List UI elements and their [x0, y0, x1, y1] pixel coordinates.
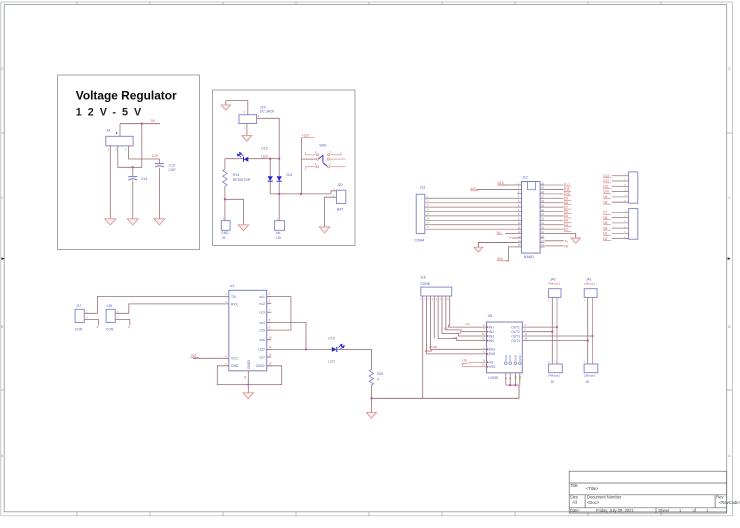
connector J20 BAT	[336, 190, 345, 203]
svg-text:D11: D11	[287, 173, 293, 177]
svg-text:<RevCode>: <RevCode>	[719, 500, 740, 505]
svg-text:A: A	[1, 453, 4, 458]
node nc4-LED	[305, 348, 307, 350]
svg-text:BAT: BAT	[337, 207, 343, 211]
wire J18 pin1 to U1 RXX	[115, 304, 229, 313]
connector J5	[549, 364, 563, 373]
svg-text:D12: D12	[603, 179, 609, 183]
svg-text:3v3: 3v3	[191, 354, 196, 358]
svg-text:D3: D3	[603, 232, 607, 236]
node U1 gnd	[247, 383, 249, 385]
svg-text:C14: C14	[141, 177, 147, 181]
net D10 header1	[612, 191, 629, 193]
wire LED pin to D18	[267, 348, 332, 350]
LED D18 arrows	[338, 344, 344, 349]
wire bat pin2 to ground	[325, 197, 337, 227]
svg-text:EN1: EN1	[489, 348, 495, 352]
ground (jack pin1)	[242, 136, 252, 142]
wire jack top	[226, 101, 248, 115]
svg-text:D2: D2	[564, 227, 568, 231]
svg-text:RMotor1: RMotor1	[548, 374, 560, 378]
net label 3v3 wire	[477, 188, 518, 190]
wire jack pin1 to ground	[246, 124, 248, 136]
svg-text:RMotor1: RMotor1	[548, 282, 560, 286]
svg-text:VCC: VCC	[231, 357, 239, 361]
connector J6	[584, 364, 598, 373]
net D3 header2	[612, 232, 629, 234]
resistor R20	[369, 370, 373, 386]
net D7	[545, 206, 564, 208]
svg-text:D4: D4	[564, 219, 568, 223]
svg-text:EN2B: EN2B	[425, 349, 432, 353]
border zone ticks top/bottom	[77, 2, 661, 516]
svg-text:D7: D7	[564, 205, 568, 209]
svg-text:nc7: nc7	[259, 355, 264, 359]
net D7 header2	[612, 211, 629, 213]
wire GND loop U1	[217, 366, 281, 385]
wire 5V top	[120, 123, 160, 125]
node R13 gnd tee	[224, 198, 226, 200]
wire battery net	[270, 193, 331, 195]
svg-text:in1: in1	[466, 322, 470, 326]
wire EN1	[430, 296, 486, 349]
svg-text:R13: R13	[233, 173, 239, 177]
wire 12V pin3	[128, 150, 159, 164]
svg-text:in4: in4	[454, 336, 458, 340]
svg-text:D8: D8	[603, 200, 607, 204]
svg-text:B: B	[728, 324, 731, 329]
svg-text:NANO: NANO	[524, 255, 534, 259]
SW1 levers	[319, 155, 327, 166]
svg-text:J17: J17	[76, 304, 82, 308]
NANO left pin stubs	[517, 185, 522, 247]
svg-text:Rx: Rx	[564, 245, 568, 249]
net D4	[545, 219, 564, 221]
svg-text:J9: J9	[222, 236, 226, 240]
wire JA1 pins down	[587, 297, 589, 364]
wire to ground arrow	[225, 199, 244, 225]
wire JA0 pins down	[551, 297, 553, 364]
capacitor C14	[128, 176, 137, 178]
wire LED row	[225, 158, 244, 160]
svg-text:J5: J5	[551, 380, 555, 384]
svg-text:D3: D3	[564, 223, 568, 227]
wires COM4 to NANO	[425, 196, 517, 229]
SW1 pole stubs left	[306, 154, 316, 156]
svg-text:Friday, July 09, 2021: Friday, July 09, 2021	[596, 508, 634, 513]
net D4 header2	[612, 227, 629, 229]
svg-text:nc3: nc3	[259, 311, 264, 315]
U1 pin14 stub	[247, 371, 249, 385]
wire gnd bus long	[371, 385, 519, 398]
net D5 header2	[612, 222, 629, 224]
border zone letters	[1, 66, 731, 458]
svg-text:OUT1: OUT1	[511, 325, 520, 329]
svg-text:in3: in3	[458, 331, 462, 335]
wire NANO left gnd	[478, 242, 517, 247]
net D3	[545, 224, 564, 226]
svg-text:Sheet: Sheet	[658, 508, 670, 513]
svg-text:SW1: SW1	[319, 144, 327, 148]
svg-text:nc4: nc4	[259, 321, 264, 325]
node C14 tap	[132, 166, 134, 168]
DC jack J19	[239, 115, 257, 124]
svg-text:D11: D11	[603, 184, 609, 188]
wire CON8 pin1 gnd	[422, 296, 424, 398]
net label 5V wire	[505, 233, 517, 235]
svg-text:A3: A3	[572, 500, 578, 505]
svg-text:C: C	[1, 195, 4, 200]
svg-text:5V: 5V	[151, 119, 156, 123]
svg-text:D12: D12	[564, 183, 570, 187]
wire Rx	[545, 245, 564, 247]
svg-text:LED: LED	[261, 154, 268, 158]
svg-text:GND: GND	[513, 355, 517, 361]
wire J17 pin2 nc	[84, 319, 98, 325]
svg-text:nc5: nc5	[259, 328, 264, 332]
svg-text:B: B	[1, 324, 4, 329]
wire C13 to ground	[158, 168, 160, 219]
wire D18 to R20	[337, 349, 372, 369]
net D8 header1	[612, 201, 629, 203]
net label VIN wire	[505, 247, 517, 261]
ground (NANO left)	[474, 247, 483, 252]
wire NANO gnd	[545, 234, 576, 238]
svg-text:J4: J4	[107, 129, 111, 133]
pin 2	[117, 146, 119, 150]
svg-text:VIN: VIN	[497, 257, 503, 261]
net label D13 wire	[498, 184, 517, 186]
wire IN1	[449, 296, 487, 327]
pin header J11	[629, 209, 638, 240]
svg-text:C13: C13	[169, 163, 175, 167]
resistor R13	[224, 159, 226, 169]
svg-text:LMotor1: LMotor1	[584, 374, 596, 378]
small wire rst	[512, 237, 517, 239]
node LED-D11a	[269, 158, 271, 160]
wire input to J4	[119, 124, 121, 137]
svg-text:D10: D10	[564, 192, 570, 196]
ground (R20)	[366, 413, 376, 419]
svg-text:J15: J15	[276, 236, 281, 240]
svg-text:Tx: Tx	[564, 239, 568, 243]
wire Vin J15	[278, 194, 280, 221]
svg-text:12v: 12v	[462, 359, 468, 363]
svg-text:RESISTOR: RESISTOR	[233, 178, 251, 182]
wire R13 bottom	[224, 186, 226, 220]
pin 3	[127, 146, 129, 150]
svg-text:TXI: TXI	[231, 295, 236, 299]
svg-text:OUT4: OUT4	[511, 339, 520, 343]
svg-text:D9: D9	[564, 196, 568, 200]
svg-text:nc1: nc1	[259, 295, 264, 299]
regulator J4	[106, 136, 133, 146]
node SW1-bat	[300, 193, 302, 195]
svg-text:D5: D5	[564, 214, 568, 218]
wire OUT4	[522, 340, 587, 342]
svg-text:-: -	[559, 361, 560, 364]
wire J17 pin1 to U1 TXI	[84, 296, 229, 313]
wire +12v to SW1 and battery	[301, 138, 303, 194]
wire IN4	[438, 296, 486, 341]
svg-text:D5: D5	[603, 221, 607, 225]
svg-text:3v3: 3v3	[470, 187, 475, 191]
svg-text:D9: D9	[603, 195, 607, 199]
svg-text:D13: D13	[498, 181, 504, 185]
net D6 header2	[612, 217, 629, 219]
svg-text:GND: GND	[221, 231, 229, 235]
svg-text:R20: R20	[377, 372, 383, 376]
svg-text:D11: D11	[564, 188, 570, 192]
net D5	[545, 215, 564, 217]
svg-text:GND3: GND3	[247, 360, 251, 369]
svg-text:U5: U5	[488, 314, 493, 318]
svg-text:rst: rst	[509, 235, 512, 239]
svg-text:12V: 12V	[152, 154, 159, 158]
node D11b-bat	[278, 193, 280, 195]
svg-text:Date:: Date:	[570, 508, 580, 513]
net D2	[545, 228, 564, 230]
wire pin2 net	[118, 124, 142, 168]
wire C14	[132, 167, 134, 176]
net D8	[545, 202, 564, 204]
net D10	[545, 193, 564, 195]
svg-text:CON: CON	[106, 328, 114, 332]
svg-text:D18: D18	[328, 336, 334, 340]
svg-text:L293D: L293D	[488, 376, 499, 380]
svg-text:LMotor1: LMotor1	[584, 282, 596, 286]
SW1 pole stubs right	[330, 154, 341, 156]
svg-text:GND: GND	[518, 355, 522, 361]
svg-text:D16: D16	[261, 147, 267, 151]
wire IN2	[446, 296, 487, 332]
svg-text:Voltage Regulator: Voltage Regulator	[76, 88, 177, 102]
NANO right pin stubs	[540, 185, 545, 247]
svg-text:U1: U1	[230, 284, 235, 288]
svg-text:LED: LED	[258, 348, 265, 352]
ground (C13)	[154, 219, 165, 225]
title block frame	[569, 471, 727, 513]
wire VCC	[193, 357, 229, 359]
svg-text:<Title>: <Title>	[586, 486, 599, 491]
U5 gnd stubs	[505, 373, 507, 385]
ground (C14)	[127, 219, 138, 225]
capacitor C13	[155, 163, 164, 165]
section box: power input	[213, 90, 356, 246]
svg-text:<Doc>: <Doc>	[587, 500, 600, 505]
svg-text:IN1: IN1	[489, 325, 494, 329]
wire gnd stem	[247, 385, 249, 393]
svg-text:-: -	[594, 361, 595, 364]
svg-text:GND: GND	[508, 355, 512, 361]
LED D16 arrows	[237, 152, 243, 157]
svg-text:nc2: nc2	[259, 302, 264, 306]
wire Tx	[545, 240, 564, 242]
svg-text:GND: GND	[504, 355, 508, 361]
wire OUT2	[522, 331, 552, 333]
svg-text:D: D	[728, 66, 731, 71]
wire jack pin2	[257, 118, 280, 158]
wire gnd join	[506, 384, 519, 386]
SW1 contacts	[316, 154, 330, 168]
svg-text:Title: Title	[570, 483, 578, 488]
pin 1	[109, 146, 111, 150]
svg-text:J12: J12	[522, 176, 528, 180]
svg-text:J20: J20	[337, 183, 343, 187]
svg-text:GND2: GND2	[256, 364, 265, 368]
node 5V junction	[141, 123, 143, 125]
wire EN2	[427, 296, 487, 354]
wire nc1-nc5 loop	[267, 297, 291, 331]
svg-text:IN3: IN3	[489, 334, 494, 338]
net D9	[545, 197, 564, 199]
title block text	[570, 483, 740, 513]
svg-text:J18: J18	[107, 304, 113, 308]
svg-text:D4: D4	[603, 226, 607, 230]
svg-text:nc6: nc6	[259, 338, 264, 342]
border zone ticks left/right	[1, 133, 733, 390]
net D2 header2	[612, 238, 629, 240]
ground (pin1)	[105, 219, 116, 225]
svg-text:0: 0	[377, 377, 379, 381]
U5 GND pins	[505, 362, 508, 365]
svg-text:+12v: +12v	[302, 134, 310, 138]
wire CON8 pin4	[433, 296, 435, 339]
svg-text:D6: D6	[603, 216, 607, 220]
border center markers	[2, 257, 5, 260]
svg-text:D: D	[1, 66, 4, 71]
ground (NANO)	[571, 238, 581, 243]
svg-text:D10: D10	[603, 190, 609, 194]
svg-text:LED: LED	[328, 360, 335, 364]
node R20 gnd bus	[370, 397, 372, 399]
svg-text:J6: J6	[585, 380, 589, 384]
svg-text:D2: D2	[603, 237, 607, 241]
svg-text:EN2: EN2	[489, 352, 495, 356]
wire J18 pin2 nc	[115, 319, 130, 325]
svg-text:VS: VS	[489, 361, 493, 365]
svg-text:D13: D13	[603, 174, 609, 178]
diode D11 right element	[278, 159, 280, 177]
svg-text:GND: GND	[231, 364, 239, 368]
net D12 header1	[612, 180, 629, 182]
section box: voltage regulator	[58, 75, 200, 250]
wire VS	[469, 361, 487, 363]
diode D11 left element	[269, 159, 271, 177]
wire bat pin1	[331, 191, 336, 194]
connector J9 GND	[221, 221, 230, 231]
svg-text:CON: CON	[75, 328, 83, 332]
svg-text:IN4: IN4	[489, 339, 494, 343]
svg-text:CON8: CON8	[420, 282, 430, 286]
svg-text:J13: J13	[420, 186, 426, 190]
svg-text:DC JACK: DC JACK	[260, 110, 275, 114]
svg-text:in2: in2	[444, 327, 448, 331]
wire OUT3	[522, 335, 592, 337]
ground (battery)	[319, 227, 330, 233]
svg-text:D8: D8	[564, 201, 568, 205]
wire OUT1	[522, 326, 557, 328]
svg-text:D6: D6	[564, 210, 568, 214]
wire C14 to ground	[132, 181, 134, 219]
ground (R13 net)	[238, 225, 249, 231]
svg-text:Vin: Vin	[276, 231, 281, 235]
ground (jack top)	[225, 101, 227, 105]
net D12	[545, 184, 564, 186]
wire nc4 to LED node	[267, 323, 306, 350]
svg-text:12V-5V: 12V-5V	[76, 107, 147, 119]
svg-text:-: -	[559, 300, 560, 303]
wire IN3	[442, 296, 487, 336]
wire pin1 to ground	[109, 150, 111, 219]
svg-text:OUT3: OUT3	[511, 334, 520, 338]
wire R20 bottom	[370, 385, 372, 413]
net D9 header1	[612, 196, 629, 198]
net D11	[545, 188, 564, 190]
svg-text:C: C	[728, 195, 731, 200]
wire VSS	[462, 363, 464, 366]
connector J15 Vin	[275, 221, 285, 231]
svg-text:J16: J16	[420, 276, 426, 280]
svg-text:VSS: VSS	[489, 365, 495, 369]
net D13 header1	[612, 175, 629, 177]
svg-text:RXX: RXX	[231, 302, 239, 306]
svg-text:-: -	[594, 300, 595, 303]
node LED-D11b	[270, 158, 279, 160]
pin header J10	[629, 172, 638, 203]
net D6	[545, 211, 564, 213]
ground (U1)	[243, 393, 254, 399]
svg-text:A: A	[728, 453, 731, 458]
net D11 header1	[612, 185, 629, 187]
svg-text:D7: D7	[603, 211, 607, 215]
svg-text:CAP: CAP	[169, 168, 177, 172]
svg-text:COM4: COM4	[414, 239, 424, 243]
